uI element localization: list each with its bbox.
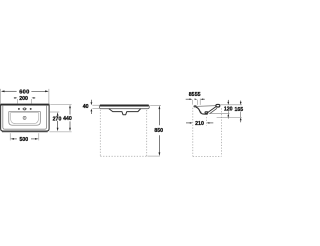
svg-text:500: 500 [19,137,28,143]
dim 850 top extension [150,104,161,106]
dim 600 extension lines [0,89,2,104]
svg-text:270: 270 [53,117,62,123]
dim 40 extension lines [92,104,99,106]
rim top thick edge [100,105,149,107]
back wall slope (double line) [208,107,216,113]
dim 120/165 top extension [220,104,242,106]
dim 440 extension lines [50,104,71,106]
svg-text:200: 200 [19,96,28,102]
cabinet outline dashed (front) [99,110,101,157]
basin outer body (top view) [1,105,50,131]
drain outlet [205,111,209,114]
dim 85/55 line + arrows [186,98,190,100]
basin inner contour line [3,106,47,129]
basin back edge (thick top line) [0,104,49,106]
dim 200 extension lines [16,99,18,104]
dim 270 extension line (top) [50,111,59,113]
front rim knob (section) [194,105,197,107]
svg-text:40: 40 [83,104,89,110]
basin front bottom edge [2,131,48,133]
rim bar outline [99,105,149,109]
dim 120 bottom extension [211,113,230,115]
ext line front edge (top, solid) [192,100,194,105]
deck line to back [197,105,216,108]
dim 600 line + arrows [2,90,17,92]
floor line dashed [100,155,147,157]
cabinet outline dashed (side) [192,108,194,157]
dim 165 arrows [240,101,242,103]
floor extension to dim [148,155,160,157]
dim 500 line + arrows [10,138,14,140]
faucet hole center with ticks [24,108,26,110]
dim 210 right extension dashed [205,117,207,126]
svg-text:440: 440 [63,116,72,122]
svg-text:165: 165 [234,107,243,113]
dim 500 extension lines [9,133,11,140]
svg-text:210: 210 [195,121,204,127]
faucet hole right [30,108,32,110]
dim 850 line + arrows [159,106,161,110]
dim 120 arrows [227,100,229,102]
dim 210 line + arrows [186,122,190,124]
svg-text:120: 120 [224,106,233,112]
back rim knob ring [216,104,220,107]
bowl bottom [200,112,208,114]
dim 200 line + arrows [14,97,15,99]
faucet hole left [18,108,20,110]
ext line mid [196,100,198,105]
drain hole [23,116,26,119]
svg-text:850: 850 [154,128,163,134]
dim 165 bottom extension [217,117,242,119]
bowl underside with drain notch [109,109,141,115]
bowl contour [11,113,39,124]
dim 270 line + arrows [57,112,59,116]
bowl front wall curve [196,107,201,112]
dim 440 line + arrows [69,105,71,109]
svg-text:55: 55 [195,92,201,98]
ext line right of 55 [199,99,201,105]
dim 40 line + arrows [90,100,92,103]
svg-text:600: 600 [19,89,29,95]
basin opening rim [9,112,41,126]
